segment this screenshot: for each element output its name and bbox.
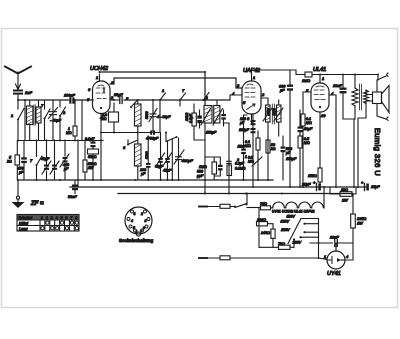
selector arm xyxy=(288,219,301,244)
wire xyxy=(81,100,83,140)
cathode bus Q xyxy=(70,186,366,188)
svg-text:2: 2 xyxy=(46,216,48,220)
svg-text:1MΩ: 1MΩ xyxy=(199,165,207,169)
trimmer capacitor 30pF xyxy=(49,100,58,141)
svg-text:3: 3 xyxy=(206,95,209,100)
svg-text:6: 6 xyxy=(123,145,126,150)
variable capacitor 440pF (osc gang) xyxy=(60,140,69,180)
svg-text:kΩ: kΩ xyxy=(7,160,12,164)
trimmer capacitor 4-30pF xyxy=(149,100,157,133)
tube socket diagram xyxy=(125,207,152,236)
svg-text:1: 1 xyxy=(162,88,164,93)
svg-text:μF: μF xyxy=(279,89,285,93)
wire pin1 up xyxy=(252,70,291,84)
contact table xyxy=(17,215,79,232)
mains line 1 with fuse and switch xyxy=(199,193,248,209)
resistor 5kOhm xyxy=(15,141,20,181)
svg-text:2kΩ: 2kΩ xyxy=(340,188,348,192)
svg-text:MΩ: MΩ xyxy=(304,141,310,145)
output transformer core xyxy=(360,84,362,110)
svg-text:150Ω: 150Ω xyxy=(308,174,317,178)
svg-text:8: 8 xyxy=(247,116,250,121)
capacitor 25uF (first filter) xyxy=(317,184,321,191)
svg-text:40pF: 40pF xyxy=(163,169,172,173)
svg-text:130Ω: 130Ω xyxy=(257,218,266,222)
variable capacitor 180pF (second gang) xyxy=(50,140,59,180)
capacitor 1nF (antenna coupling) xyxy=(13,90,23,101)
svg-text:20nF: 20nF xyxy=(329,236,339,240)
svg-text:2: 2 xyxy=(62,110,66,115)
svg-text:2: 2 xyxy=(261,92,265,97)
svg-text:7: 7 xyxy=(41,103,44,108)
resistor 1MOhm + capacitor 500uuF xyxy=(205,157,223,180)
svg-text:0.2μF: 0.2μF xyxy=(235,162,245,166)
capacitor 30pF (padder) xyxy=(157,133,165,181)
svg-text:4: 4 xyxy=(131,219,133,223)
output transformer secondary xyxy=(364,90,373,104)
capacitor (IF primary) xyxy=(197,110,202,128)
IF transformer T1 xyxy=(201,100,224,194)
svg-text:ZF =: ZF = xyxy=(30,201,44,207)
capacitor 200pF xyxy=(146,136,151,180)
capacitor 500pF xyxy=(281,136,286,180)
resistor 0.1MOhm xyxy=(256,131,260,158)
resistor 130Ohm xyxy=(257,222,268,226)
svg-text:8: 8 xyxy=(145,219,147,223)
capacitor 100pF (series in bus) xyxy=(69,97,74,103)
svg-text:6: 6 xyxy=(88,87,91,92)
switch contact 2 xyxy=(59,100,66,141)
svg-text:1: 1 xyxy=(324,254,326,259)
svg-text:3: 3 xyxy=(237,83,240,88)
ground bus P xyxy=(18,179,273,181)
capacitor 10nF xyxy=(340,74,355,120)
svg-text:0.1MΩ: 0.1MΩ xyxy=(235,167,246,171)
capacitor 300uF xyxy=(287,85,293,188)
svg-text:20: 20 xyxy=(320,113,326,118)
svg-text:1MΩ: 1MΩ xyxy=(302,79,310,83)
wire (pin1 top bus) xyxy=(100,72,206,104)
resistor 2kOhm 2W (filter) xyxy=(330,187,356,196)
svg-text:4: 4 xyxy=(346,254,349,259)
svg-text:8: 8 xyxy=(75,216,77,220)
wire UL41 pin5 + resistor 0.1MOhm xyxy=(301,92,311,187)
svg-text:10nF: 10nF xyxy=(333,84,342,88)
svg-text:100pF: 100pF xyxy=(239,128,250,132)
wire bus A (grid bus y=100) xyxy=(18,99,93,101)
variable capacitor 140pF xyxy=(42,140,51,180)
resistor 20kOhm + capacitor 0.2uF xyxy=(192,104,205,140)
resistor 240Ohm xyxy=(271,229,275,238)
svg-text:+: + xyxy=(361,180,364,185)
wire xyxy=(318,257,320,259)
svg-text:7: 7 xyxy=(30,158,33,163)
svg-text:125V: 125V xyxy=(281,219,290,223)
capacitor 4700pF (series, padder) xyxy=(150,130,152,134)
rectifier line xyxy=(310,242,353,244)
capacitor 150pF xyxy=(221,110,229,194)
tube UY41 xyxy=(327,243,353,269)
svg-text:1nF: 1nF xyxy=(25,90,32,95)
svg-text:kΩ: kΩ xyxy=(102,117,107,121)
resistor 0.1MOhm + capacitor 0.2uF (AF) xyxy=(227,159,232,176)
switch contact 2 (osc) xyxy=(165,132,178,142)
svg-text:1: 1 xyxy=(253,75,255,80)
svg-text:2: 2 xyxy=(140,212,143,216)
capacitor 40pF (padder) xyxy=(164,142,172,181)
B- bus R xyxy=(118,193,353,195)
svg-text:3000: 3000 xyxy=(273,108,277,115)
capacitor 50nF xyxy=(72,180,78,194)
resistor 1MOhm (UL41 grid stopper) xyxy=(290,70,378,77)
resistor 50kOhm (screen) xyxy=(266,138,270,180)
resistor 50kOhm 1W xyxy=(83,140,87,180)
switch contact 7 xyxy=(179,93,186,106)
svg-text:μμF: μμF xyxy=(196,174,204,178)
svg-text:μF: μF xyxy=(18,171,24,175)
wire xyxy=(171,140,173,181)
capacitor 10uF + resistor 0.5MOhm (UL41 grid) xyxy=(298,110,303,187)
svg-text:1W: 1W xyxy=(357,222,363,226)
svg-text:1: 1 xyxy=(96,75,98,80)
wire xyxy=(77,140,79,187)
svg-text:5: 5 xyxy=(61,216,63,220)
resistor 79Ohm xyxy=(259,246,279,248)
wire tube bottom xyxy=(100,114,102,181)
heater chain resistor 74Ohm xyxy=(247,206,273,210)
svg-text:1: 1 xyxy=(11,113,13,118)
switch contact 1 (osc) xyxy=(159,93,166,101)
potentiometer 0.5MOhm xyxy=(248,156,262,181)
svg-text:500: 500 xyxy=(197,170,203,174)
svg-text:7: 7 xyxy=(140,230,142,234)
bus B2 (grid bus y=132.5) xyxy=(101,132,160,134)
svg-text:25μF: 25μF xyxy=(370,185,380,189)
svg-text:1: 1 xyxy=(245,155,247,159)
output transformer primary xyxy=(352,74,358,120)
wire osc grid riser xyxy=(159,100,161,133)
resistor 1MOhm (osc grid) xyxy=(73,100,77,140)
svg-text:5: 5 xyxy=(243,100,246,105)
switch contact 7 (osc) xyxy=(36,141,43,181)
resistor 135Ohm 1W xyxy=(351,194,356,244)
svg-text:5000: 5000 xyxy=(267,108,271,115)
capacitor 0.1uF + resistor 50kOhm xyxy=(88,140,99,180)
variable capacitor 480pF xyxy=(174,138,184,180)
svg-text:100pF: 100pF xyxy=(64,94,75,98)
svg-text:50kΩ: 50kΩ xyxy=(88,155,97,159)
switch contact 1 xyxy=(17,100,24,141)
svg-text:0.2μF: 0.2μF xyxy=(189,113,193,123)
svg-text:4: 4 xyxy=(56,216,58,220)
svg-text:pF: pF xyxy=(63,167,69,171)
bus B1 (oscillator bus y=140) xyxy=(18,140,103,142)
long vertical wires to bus (output stage returns) xyxy=(354,104,366,187)
capacitor 470pF xyxy=(21,141,27,181)
svg-text:UY41 UCH42 UL41 UAF42: UY41 UCH42 UL41 UAF42 xyxy=(272,210,314,214)
capacitor 100pF (cathode) xyxy=(251,120,256,125)
svg-text:Schalter: Schalter xyxy=(19,216,34,220)
svg-text:Eumig 326 U: Eumig 326 U xyxy=(373,128,382,176)
svg-text:pF: pF xyxy=(140,172,146,176)
capacitor 20nF xyxy=(333,240,337,247)
svg-text:5600: 5600 xyxy=(145,111,149,119)
switch contact 6 xyxy=(127,140,137,146)
antenna xyxy=(5,67,31,90)
svg-text:MΩ: MΩ xyxy=(66,131,72,135)
wire pin4 xyxy=(230,95,242,100)
speaker xyxy=(373,73,390,121)
capacitor 25uF (second filter) xyxy=(365,184,369,191)
svg-text:1: 1 xyxy=(136,230,138,234)
svg-text:3: 3 xyxy=(134,212,136,216)
svg-text:40pF: 40pF xyxy=(41,157,50,161)
svg-text:50pF: 50pF xyxy=(114,93,123,97)
svg-text:110V: 110V xyxy=(287,215,296,219)
wire UL41 cathode + resistor 150Ohm xyxy=(318,112,322,187)
switch contact 5 xyxy=(130,101,137,109)
svg-text:Lang: Lang xyxy=(19,227,28,231)
svg-text:UL41: UL41 xyxy=(313,67,326,73)
svg-text:3: 3 xyxy=(51,216,53,220)
capacitor 15nF + volume pot xyxy=(241,115,247,180)
svg-text:MΩ: MΩ xyxy=(248,160,254,164)
svg-text:135Ω: 135Ω xyxy=(357,217,366,221)
wire bus A right xyxy=(124,99,230,101)
svg-text:7: 7 xyxy=(70,216,72,220)
selector contacts xyxy=(301,224,319,238)
switch contact 7 xyxy=(44,100,51,141)
svg-text:+: + xyxy=(313,180,316,185)
IF transformer T2 xyxy=(261,98,283,138)
svg-text:2W: 2W xyxy=(341,199,348,203)
svg-text:220V: 220V xyxy=(292,240,302,244)
svg-text:MΩ: MΩ xyxy=(306,121,312,125)
svg-text:240Ω: 240Ω xyxy=(260,231,270,235)
heater filaments UY41 UCH42 UL41 UAF42 xyxy=(273,186,325,208)
svg-text:10μF: 10μF xyxy=(304,127,313,131)
svg-text:pF: pF xyxy=(285,151,291,155)
svg-text:150pF: 150pF xyxy=(206,131,217,135)
svg-text:6: 6 xyxy=(143,226,145,230)
svg-text:6: 6 xyxy=(66,216,68,220)
svg-text:Sockelschaltung: Sockelschaltung xyxy=(119,238,154,243)
wire xyxy=(24,100,26,141)
voltage selector xyxy=(257,208,319,259)
svg-text:25μF: 25μF xyxy=(301,183,311,187)
svg-text:150V: 150V xyxy=(281,228,290,232)
svg-text:79Ω: 79Ω xyxy=(278,242,285,246)
svg-text:7: 7 xyxy=(182,88,185,93)
svg-text:UCH42: UCH42 xyxy=(90,66,108,72)
wire tube UAF42 bottom xyxy=(252,114,254,187)
svg-text:15nF: 15nF xyxy=(238,145,247,149)
wire (pin2 AVC bus) xyxy=(110,78,242,88)
svg-text:Mittel: Mittel xyxy=(19,221,28,225)
switch contact 3 (IF input) xyxy=(203,93,210,102)
svg-text:480pF: 480pF xyxy=(182,158,194,163)
wire UL41 pin4 xyxy=(329,95,336,187)
svg-text:UY41: UY41 xyxy=(327,271,341,277)
svg-text:kΩ: kΩ xyxy=(271,147,276,151)
coil L2 (osc coil) xyxy=(135,100,142,180)
svg-text:1: 1 xyxy=(322,76,324,81)
mains line 2 xyxy=(199,256,327,260)
wire xyxy=(377,75,379,81)
capacitor 50pF xyxy=(110,97,122,104)
svg-text:4 - 30pF: 4 - 30pF xyxy=(157,115,171,119)
svg-text:0.1μF: 0.1μF xyxy=(85,137,95,141)
antenna coil L1 xyxy=(27,100,42,141)
svg-text:74Ω: 74Ω xyxy=(260,202,267,206)
svg-text:1: 1 xyxy=(41,216,43,220)
svg-text:50nF: 50nF xyxy=(68,195,77,199)
resistor 6.8kOhm xyxy=(109,103,119,133)
svg-text:MΩ: MΩ xyxy=(245,144,251,148)
svg-text:150pF: 150pF xyxy=(286,157,297,161)
ground xyxy=(12,180,25,208)
